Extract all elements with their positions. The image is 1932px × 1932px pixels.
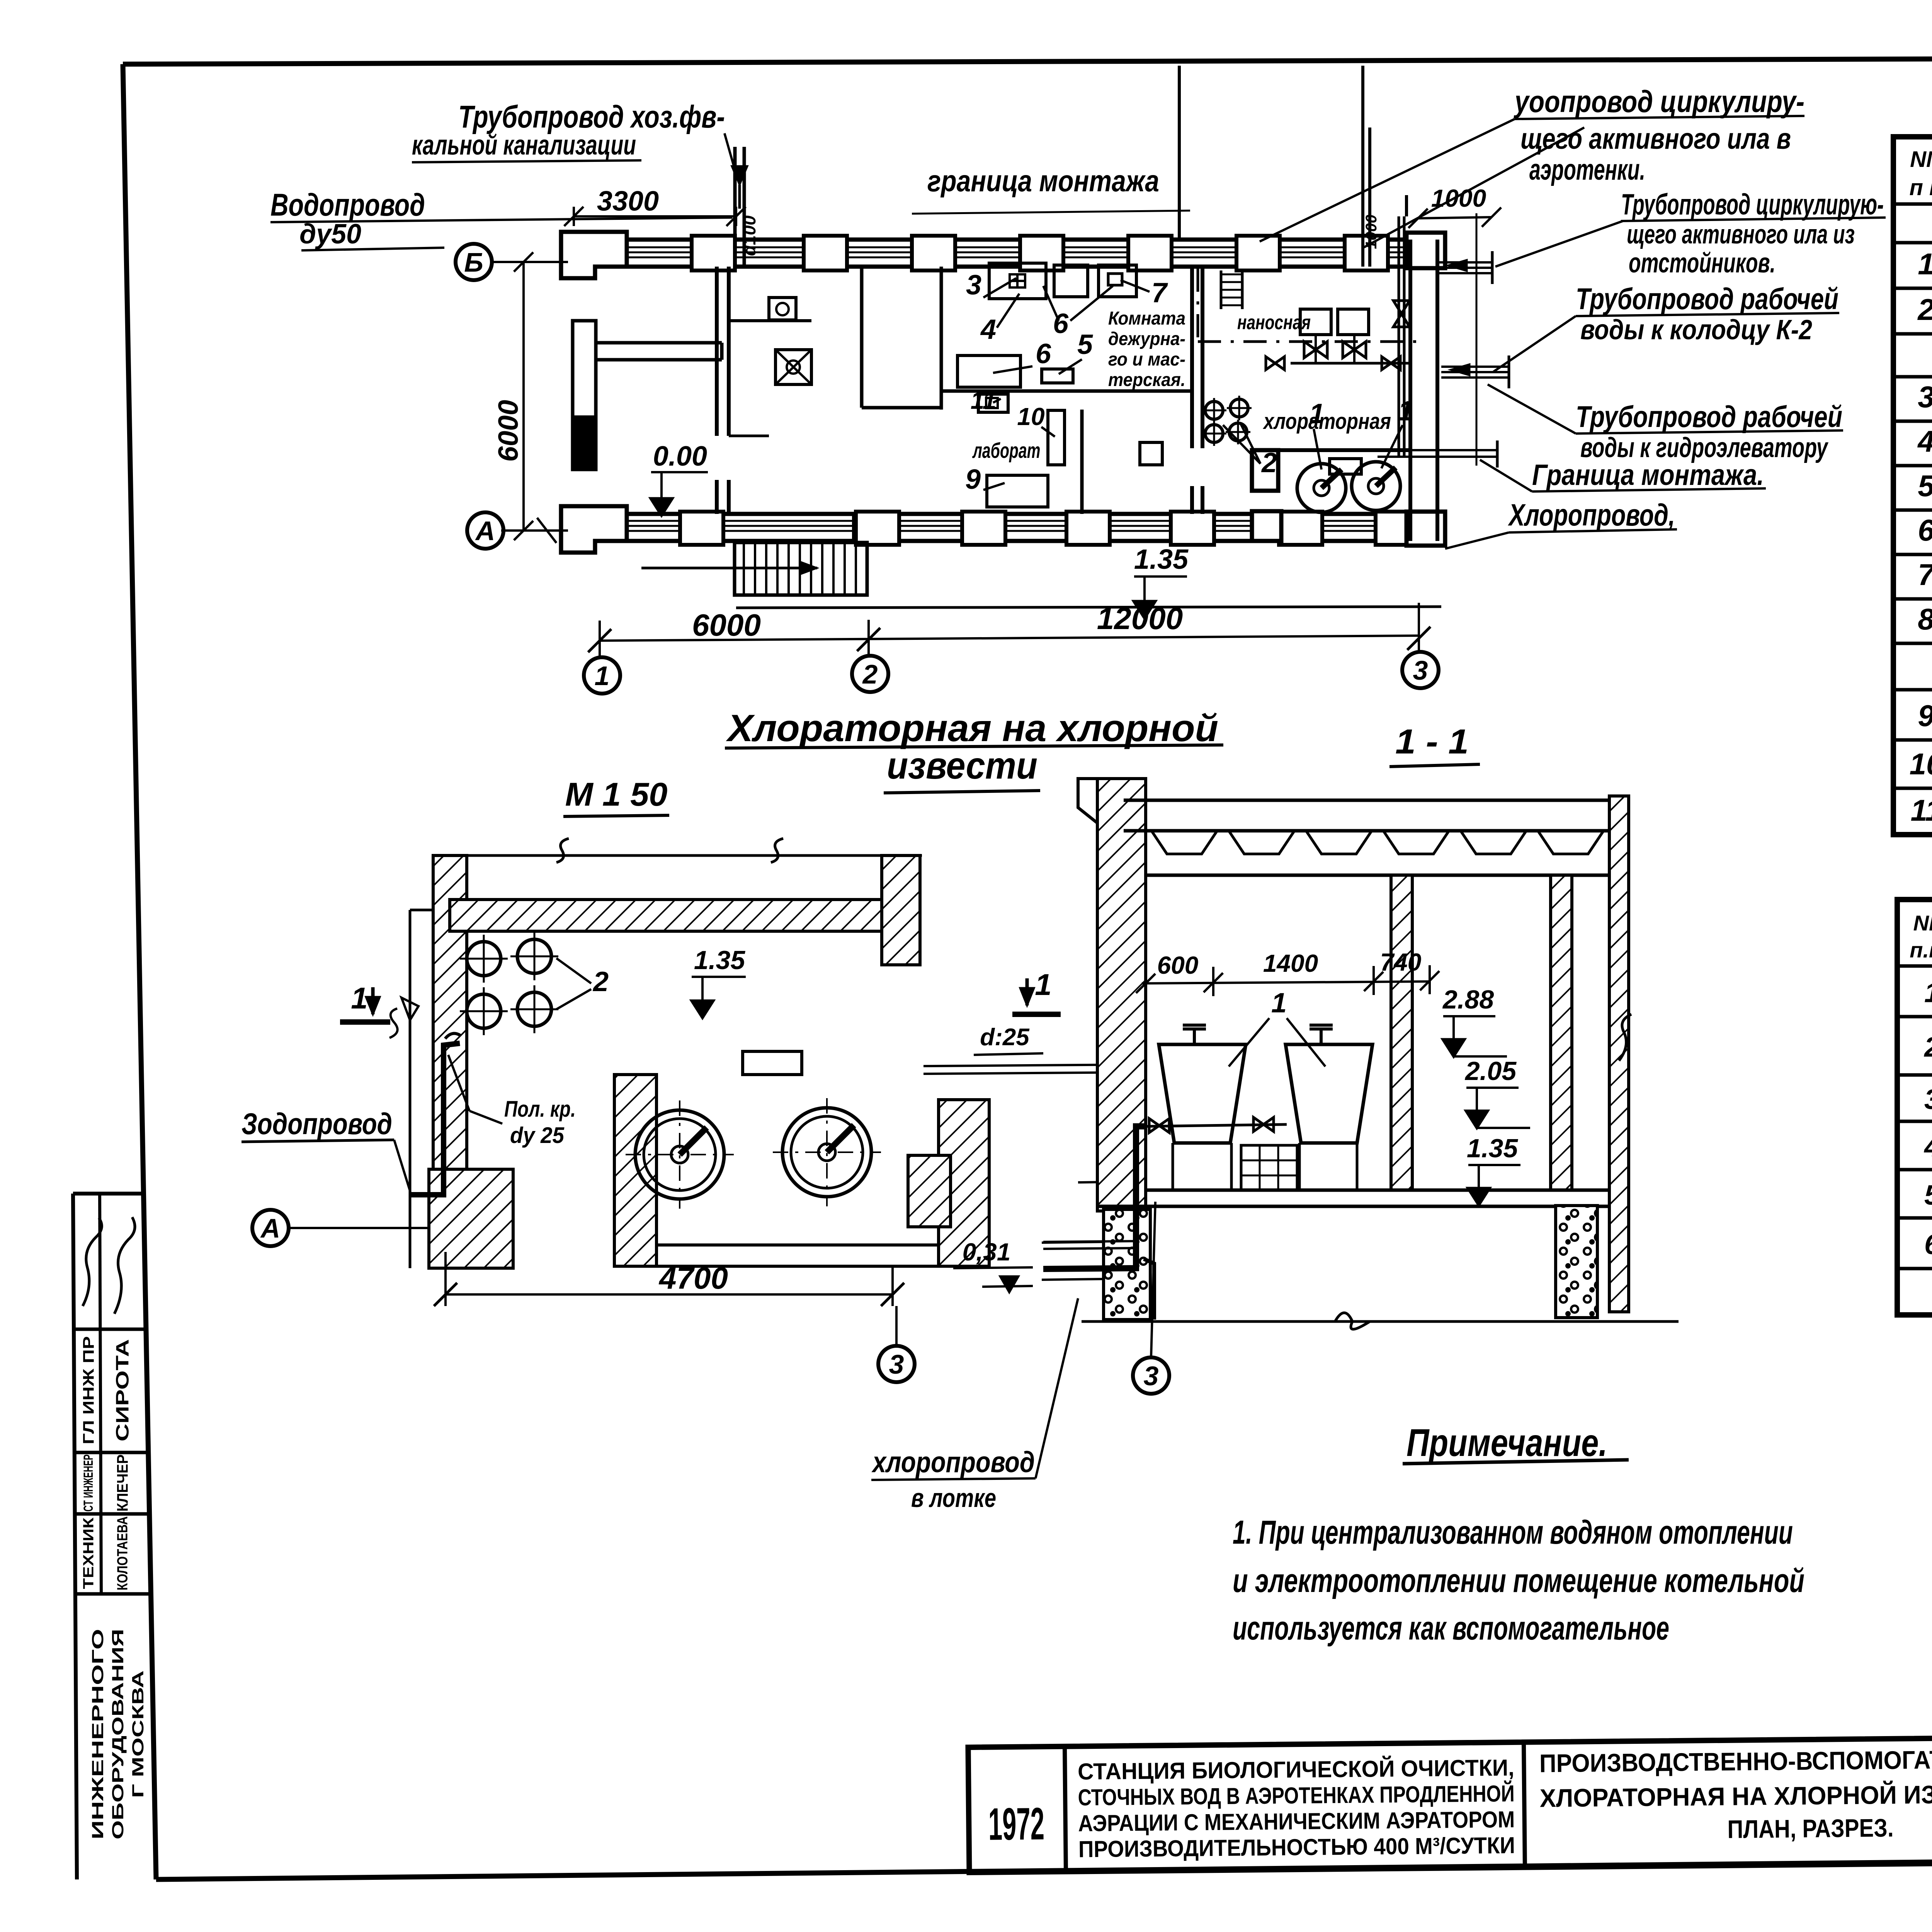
svg-text:Трубопровод рабочей: Трубопровод рабочей	[1576, 400, 1842, 434]
svg-text:11: 11	[1911, 793, 1932, 827]
svg-text:1. При централизованном водя: 1. При централизованном водяном отоплени…	[1233, 1514, 1793, 1551]
svg-text:отстойников.: отстойников.	[1629, 248, 1776, 279]
svg-text:3: 3	[1924, 1084, 1932, 1115]
svg-text:6: 6	[1036, 338, 1051, 369]
title: scale M 1 50	[563, 776, 669, 816]
svg-text:d100: d100	[739, 215, 759, 256]
svg-text:наносная: наносная	[1237, 311, 1311, 334]
svg-text:терская.: терская.	[1108, 370, 1185, 390]
svg-text:2: 2	[1261, 447, 1277, 478]
svg-text:КЛЕЧЕР: КЛЕЧЕР	[114, 1454, 131, 1512]
section: interior columns hatched	[1391, 796, 1629, 1312]
svg-text:извести: извести	[887, 744, 1037, 787]
section: floor and ground lines	[1082, 1190, 1679, 1329]
svg-text:СИРОТА: СИРОТА	[112, 1339, 133, 1442]
svg-text:уоопровод циркулиру-: уоопровод циркулиру-	[1514, 84, 1804, 119]
floor plan: four barrels (item 2) in plan	[1202, 396, 1252, 446]
svg-text:Г МОСКВА: Г МОСКВА	[129, 1670, 147, 1798]
floor plan: sewer riser pipe	[732, 147, 747, 267]
svg-text:СТ ИНЖЕНЕР: СТ ИНЖЕНЕР	[81, 1454, 96, 1512]
M150: section mark 1 right	[1012, 968, 1061, 1014]
section: break squiggle right	[1619, 1014, 1631, 1061]
label: chlorine pipe in tray	[871, 1298, 1078, 1513]
svg-text:4: 4	[1923, 1132, 1932, 1163]
svg-text:1 - 1: 1 - 1	[1395, 723, 1469, 761]
svg-text:А: А	[260, 1213, 281, 1243]
floor plan: left wing walls	[573, 321, 722, 469]
svg-text:dy 25: dy 25	[510, 1123, 565, 1148]
title block	[968, 1731, 1932, 1872]
M150: pipe to the right d25	[923, 1024, 1144, 1088]
label granitsa montazha top	[912, 164, 1190, 214]
furniture callout numbers	[965, 270, 1413, 495]
floor plan: montage boundary dash-dot	[1198, 269, 1422, 342]
M150: dim 4700	[434, 1252, 904, 1306]
M150: axis 3 circle	[878, 1306, 915, 1382]
svg-text:Трубопровод рабочей: Трубопровод рабочей	[1576, 282, 1838, 316]
section: elevation 2.88	[1442, 985, 1507, 1056]
svg-text:воды к колодцу К-2: воды к колодцу К-2	[1580, 315, 1812, 345]
svg-text:NN: NN	[1910, 147, 1932, 172]
section: callout 1	[1229, 988, 1325, 1066]
M150: axis A circle	[252, 1210, 428, 1246]
right label: working water to well K-2	[1493, 282, 1839, 372]
svg-text:8: 8	[1918, 602, 1932, 636]
table Explication grid	[1893, 137, 1932, 835]
svg-text:3: 3	[1413, 655, 1428, 685]
svg-text:1: 1	[351, 981, 367, 1015]
svg-text:4: 4	[1917, 424, 1932, 458]
svg-text:лаборат: лаборат	[972, 438, 1040, 463]
svg-text:7: 7	[1918, 558, 1932, 592]
svg-text:2: 2	[862, 659, 878, 689]
svg-text:NN: NN	[1913, 911, 1932, 935]
svg-text:в лотке: в лотке	[911, 1483, 996, 1513]
axis line B	[456, 244, 568, 280]
svg-text:1.35: 1.35	[1134, 544, 1189, 575]
section: two tanks	[1159, 1025, 1372, 1190]
svg-text:ПРОИЗВОДИТЕЛЬНОСТЬЮ 400 М³/СУТ: ПРОИЗВОДИТЕЛЬНОСТЬЮ 400 М³/СУТКИ	[1078, 1832, 1515, 1862]
svg-text:9: 9	[1918, 699, 1932, 733]
M150: vodoprovod label	[241, 1107, 410, 1192]
svg-text:КОЛОТАЕВА: КОЛОТАЕВА	[115, 1516, 131, 1590]
svg-text:3: 3	[889, 1349, 904, 1379]
floor plan: chlorinator room walls	[1252, 240, 1437, 541]
svg-text:используется как вспомогател: используется как вспомогательное	[1233, 1610, 1669, 1647]
floor plan: top exterior wall with window piers	[561, 232, 1445, 278]
svg-text:Комната: Комната	[1108, 308, 1185, 329]
svg-text:Примечание.: Примечание.	[1406, 1421, 1607, 1464]
M150: Pol kr label	[448, 1055, 576, 1148]
M150: water pipe	[410, 1034, 461, 1195]
svg-text:4700: 4700	[658, 1261, 728, 1295]
room label komnata dezhurnogo	[1108, 308, 1185, 390]
table Materials grid	[1897, 900, 1932, 1315]
svg-text:Трубопровод циркулирую-: Трубопровод циркулирую-	[1621, 188, 1884, 221]
floor plan: stairs	[641, 543, 867, 595]
svg-text:2: 2	[1917, 293, 1932, 327]
svg-text:СТАНЦИЯ БИОЛОГИЧЕСКОЙ ОЧИСТКИ,: СТАНЦИЯ БИОЛОГИЧЕСКОЙ ОЧИСТКИ,	[1078, 1755, 1515, 1784]
M150: four barrels	[460, 932, 609, 1035]
top label: sewer pipeline	[412, 99, 735, 170]
furniture rectangles workshop and lab	[957, 263, 1162, 507]
svg-text:кальной канализации: кальной канализации	[412, 130, 636, 161]
svg-text:1.35: 1.35	[1467, 1134, 1519, 1163]
svg-text:1400: 1400	[1263, 949, 1318, 977]
stamp strip rotated labels	[80, 1336, 147, 1840]
svg-text:11: 11	[971, 386, 996, 414]
section: elevation 1.35	[1467, 1134, 1520, 1205]
signature squiggles	[83, 1217, 135, 1314]
floor plan: lower retaining line	[736, 607, 1441, 608]
M150: pit walls hatched	[429, 1075, 989, 1268]
table Explication rows	[1910, 206, 1932, 827]
svg-text:М 1 50: М 1 50	[565, 776, 668, 813]
title: chlorinator room plan	[725, 707, 1223, 793]
M150: left wall hatched	[401, 855, 467, 1268]
M150: top wall hatched	[450, 838, 922, 931]
floor plan: pump room equipment	[1266, 309, 1412, 370]
svg-text:хлоропровод: хлоропровод	[871, 1446, 1035, 1479]
floor plan: bottom exterior wall with window piers	[561, 506, 1445, 553]
svg-text:дежурна-: дежурна-	[1108, 329, 1185, 349]
svg-text:1: 1	[1309, 398, 1325, 429]
svg-text:4: 4	[980, 314, 996, 345]
svg-text:СТОЧНЫХ ВОД В АЭРОТЕНКАХ ПРОДЛ: СТОЧНЫХ ВОД В АЭРОТЕНКАХ ПРОДЛЕННОЙ	[1078, 1781, 1515, 1810]
svg-text:ХЛОРАТОРНАЯ НА ХЛОРНОЙ ИЗВЕ: ХЛОРАТОРНАЯ НА ХЛОРНОЙ ИЗВЕСТИ.	[1539, 1779, 1932, 1813]
svg-text:3: 3	[1144, 1361, 1159, 1391]
svg-text:d:25: d:25	[980, 1024, 1030, 1051]
svg-text:2.88: 2.88	[1442, 985, 1494, 1014]
svg-text:А: А	[475, 516, 495, 546]
svg-text:аэротенки.: аэротенки.	[1529, 153, 1645, 186]
svg-text:1: 1	[1035, 968, 1051, 1002]
svg-text:ГЛ ИНЖ ПР: ГЛ ИНЖ ПР	[80, 1336, 97, 1444]
left stamp strip	[73, 1194, 149, 1879]
section: elevation 0.31 and pipe left	[953, 1238, 1105, 1293]
M150: elevation 1.35	[692, 946, 746, 1018]
right label: montage boundary	[1480, 459, 1766, 492]
svg-text:граница монтажа: граница монтажа	[927, 164, 1159, 198]
svg-text:3300: 3300	[597, 186, 659, 217]
svg-text:1.35: 1.35	[694, 946, 746, 975]
floor plan: shower cabin with X	[776, 350, 811, 384]
section: elevation 2.05	[1464, 1056, 1530, 1128]
right label: chlorine pipe	[1445, 498, 1677, 549]
svg-text:3: 3	[966, 270, 981, 301]
floor plan: sink symbol	[769, 298, 796, 320]
svg-text:1: 1	[1918, 247, 1932, 281]
svg-text:5: 5	[1077, 329, 1093, 360]
note text lines	[1233, 1514, 1804, 1647]
svg-text:п.п.: п.п.	[1910, 938, 1932, 962]
section: dims 600 1400 740	[1136, 948, 1439, 997]
svg-text:2: 2	[592, 966, 609, 997]
svg-text:Зодопровод: Зодопровод	[241, 1107, 392, 1141]
svg-text:и электроотоплении помещение: и электроотоплении помещение котельной	[1233, 1562, 1804, 1599]
svg-text:ТЕХНИК: ТЕХНИК	[81, 1517, 97, 1589]
svg-text:1972: 1972	[988, 1798, 1044, 1850]
svg-text:ду50: ду50	[299, 219, 361, 250]
right label block: circulating sludge from settlers	[1495, 188, 1886, 279]
svg-text:5: 5	[1918, 469, 1932, 503]
note title	[1403, 1421, 1629, 1464]
svg-text:Пол. кр.: Пол. кр.	[504, 1097, 576, 1122]
section: left wall hatched	[1078, 779, 1146, 1211]
M150: vertical dim 910	[1078, 1068, 1132, 1192]
svg-text:ПЛАН, РАЗРЕЗ.: ПЛАН, РАЗРЕЗ.	[1727, 1813, 1894, 1844]
svg-text:0,31: 0,31	[963, 1238, 1011, 1266]
svg-text:Хлораторная на хлорной: Хлораторная на хлорной	[726, 707, 1218, 749]
svg-text:5: 5	[1924, 1180, 1932, 1211]
svg-text:Б: Б	[464, 247, 483, 277]
svg-text:740: 740	[1380, 948, 1422, 976]
svg-text:3: 3	[1918, 380, 1932, 414]
svg-text:1: 1	[1271, 988, 1287, 1019]
vertical dimension 6000 between axes	[493, 252, 533, 540]
floor plan: two solution tanks (item 1) in plan	[1297, 459, 1400, 512]
top label: water supply	[270, 187, 732, 250]
axis circles 1 2 3	[584, 657, 620, 694]
floor plan: right side pipes	[1378, 213, 1509, 468]
dimension 1000 top right	[1363, 184, 1501, 249]
right label block: circulating sludge to aerotanks	[1260, 84, 1804, 247]
table Explication header text	[1910, 145, 1932, 200]
svg-text:6: 6	[1918, 513, 1932, 547]
M150: section mark 1 left	[340, 981, 398, 1038]
svg-text:хлораторная: хлораторная	[1262, 409, 1391, 434]
svg-text:10: 10	[1910, 747, 1932, 781]
elevation 0.00 in plan	[651, 441, 708, 515]
svg-text:7: 7	[1151, 277, 1168, 308]
axis line A	[467, 512, 568, 549]
section: foundations with dots	[1104, 1206, 1597, 1320]
svg-text:6000: 6000	[692, 608, 761, 642]
svg-text:0.00: 0.00	[653, 441, 707, 472]
svg-text:9: 9	[965, 464, 981, 495]
title: section 1-1	[1389, 723, 1480, 767]
floor plan: upper-right riser pipes	[1179, 66, 1406, 267]
svg-text:Хлоропровод,: Хлоропровод,	[1508, 498, 1675, 532]
svg-text:го и мас-: го и мас-	[1108, 349, 1185, 370]
svg-text:АЭРАЦИИ С МЕХАНИЧЕСКИМ АЭРАТОР: АЭРАЦИИ С МЕХАНИЧЕСКИМ АЭРАТОРОМ	[1078, 1806, 1515, 1836]
svg-text:Трубопровод хоз.фв-: Трубопровод хоз.фв-	[458, 99, 725, 134]
svg-text:щего активного ила из: щего активного ила из	[1627, 219, 1855, 249]
M150: two tanks with agitators	[626, 1051, 881, 1209]
elevation 1.35 in plan	[1134, 544, 1189, 618]
right label: working water to hydroelevator	[1488, 384, 1843, 463]
svg-text:п п: п п	[1910, 175, 1932, 200]
section: pipes and valves	[1042, 1117, 1287, 1320]
svg-text:600: 600	[1157, 951, 1199, 979]
table Materials header text	[1910, 905, 1932, 963]
svg-text:2.05: 2.05	[1464, 1056, 1517, 1086]
section: axis 3 circle	[1133, 1202, 1169, 1394]
svg-text:ИНЖЕНЕРНОГО: ИНЖЕНЕРНОГО	[88, 1629, 107, 1840]
table Materials rows	[1923, 969, 1932, 1260]
svg-text:Граница монтажа.: Граница монтажа.	[1532, 459, 1764, 492]
svg-text:10: 10	[1017, 403, 1044, 430]
svg-text:1000: 1000	[1431, 184, 1486, 212]
svg-text:6000: 6000	[493, 400, 524, 462]
svg-text:1: 1	[1924, 978, 1932, 1009]
bottom dimension line 6000 / 12000	[588, 601, 1430, 657]
svg-text:Водопровод: Водопровод	[270, 187, 425, 223]
dimension 3300 at top	[564, 186, 746, 226]
svg-text:2: 2	[1923, 1032, 1932, 1063]
M150: right column block	[882, 855, 920, 965]
floor plan: wall ladder	[1221, 270, 1242, 309]
svg-text:ОБОРУДОВАНИЯ: ОБОРУДОВАНИЯ	[109, 1629, 127, 1840]
floor plan: interior partitions	[717, 267, 1202, 541]
svg-text:6: 6	[1924, 1230, 1932, 1260]
svg-text:1: 1	[1398, 396, 1413, 427]
section: ceiling slab	[1124, 800, 1628, 875]
svg-text:1: 1	[595, 661, 610, 691]
